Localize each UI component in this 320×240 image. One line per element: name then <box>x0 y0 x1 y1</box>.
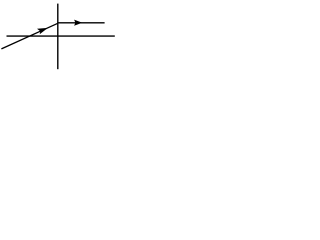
incoming ray arrowhead <box>37 28 48 34</box>
lens plane vertical line <box>57 4 59 70</box>
outgoing ray <box>58 22 105 24</box>
incoming ray <box>1 23 57 49</box>
outgoing ray arrowhead <box>74 20 82 26</box>
optical axis <box>7 35 115 37</box>
